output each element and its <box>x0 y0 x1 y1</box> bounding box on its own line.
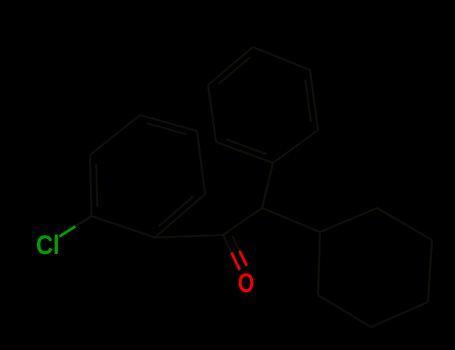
aromatic inner line: chlorophenyl ring edge A2-A3 <box>147 123 187 134</box>
bond: phenyl ring bottom-left edge P0-P1 <box>216 142 273 163</box>
bond: phenyl ring top-left edge P2-P3 <box>208 47 253 85</box>
bond: phenyl ring bottom-right edge P5-P0 <box>273 130 318 163</box>
aromatic inner line: chlorophenyl ring edge A4-A5 <box>159 196 194 226</box>
bond: phenyl ring top-right edge P3-P4 <box>253 47 310 70</box>
svg-text:O: O <box>238 269 255 299</box>
svg-text:Cl: Cl <box>36 231 60 261</box>
bond: methine C2 to cyclohexyl H0 <box>262 208 320 232</box>
bond: phenyl ring left edge P1-P2 <box>208 85 216 142</box>
bond: C1=O main line carbon half <box>223 235 231 253</box>
bond: cyclohexyl ring bottom-left edge H4-H5 <box>318 295 371 327</box>
aromatic inner line: chlorophenyl ring edge A0-A1 <box>96 164 97 207</box>
aromatic inner line: phenyl ring edge P2-P3 <box>219 57 251 84</box>
bond: C1=O second line carbon half <box>232 236 239 251</box>
bond: C-Cl carbon half <box>76 216 92 226</box>
bond: cyclohexyl ring right edge H2-H3 <box>428 240 432 302</box>
bond: chlorophenyl ring left edge A0-A1 <box>90 155 92 216</box>
bond: cyclohexyl ring top edge H0-H1 <box>320 208 377 232</box>
bond: chlorophenyl ring top edge A2-A3 <box>140 115 197 131</box>
bond: chlorophenyl ring bottom-right edge A4-A5 <box>155 194 205 238</box>
bond: chlorophenyl ring bottom-left edge A5-A0 <box>92 216 156 238</box>
bond: methine C2 to phenyl P0 <box>262 163 273 208</box>
bond: aryl C(A5) to carbonyl C1 <box>155 235 223 238</box>
bond: cyclohexyl ring left edge H5-H0 <box>318 232 320 295</box>
bond: cyclohexyl ring top-right edge H1-H2 <box>377 208 432 240</box>
bond: chlorophenyl ring right edge A3-A4 <box>197 131 205 194</box>
bond: C1=O main line oxygen half (red) <box>231 253 239 271</box>
bond: chlorophenyl ring top-left edge A1-A2 <box>90 115 140 155</box>
bond: phenyl ring right edge P4-P5 <box>310 70 318 130</box>
bond: C1=O second line oxygen half (red) <box>240 251 247 266</box>
bond: carbonyl C1 to methine C2 <box>223 208 262 235</box>
aromatic inner line: phenyl ring edge P4-P5 <box>305 80 311 122</box>
bond: cyclohexyl ring bottom edge H3-H4 <box>371 302 428 327</box>
aromatic inner line: phenyl ring edge P0-P1 <box>227 140 267 155</box>
bond: C-Cl chlorine half (green) <box>60 226 76 236</box>
